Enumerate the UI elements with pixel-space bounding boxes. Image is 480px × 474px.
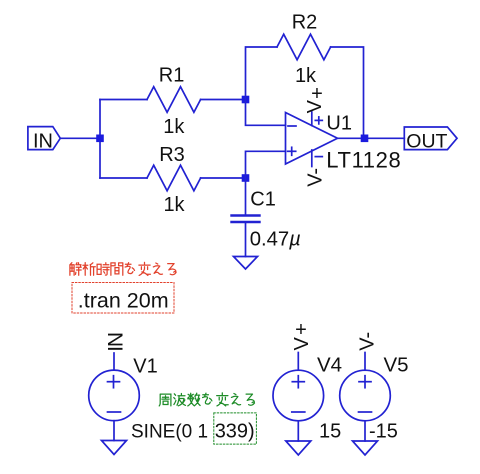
svg-text:OUT: OUT xyxy=(406,130,447,152)
wire C1 bottom lead xyxy=(245,223,247,257)
wire R2 left branch xyxy=(246,47,278,100)
wire V5 bottom lead xyxy=(364,421,366,441)
resistor R3 xyxy=(147,165,201,191)
svg-text:+: + xyxy=(311,83,323,105)
resistor R2 xyxy=(277,34,331,60)
svg-text:V4: V4 xyxy=(317,353,342,376)
wire IN to node xyxy=(60,137,100,139)
wire R3 left lead xyxy=(100,177,147,179)
svg-text:IN: IN xyxy=(33,130,53,152)
ground below C1 xyxy=(234,257,258,270)
wire op-amp output xyxy=(338,137,405,139)
wire V1 top lead xyxy=(113,353,115,370)
wire V4 bottom lead xyxy=(297,421,299,441)
svg-text:IN: IN xyxy=(105,333,128,352)
op-amp V- power stub xyxy=(311,150,313,167)
op-amp noninverting input mark xyxy=(288,147,296,155)
node junction output xyxy=(361,135,369,143)
wire V1 bottom lead xyxy=(113,421,115,441)
wire R1 left lead xyxy=(100,99,147,101)
voltage source V1 circle xyxy=(89,370,140,421)
svg-text:LT1128: LT1128 xyxy=(326,148,401,173)
svg-text:V-: V- xyxy=(304,168,326,187)
V1 minus mark xyxy=(108,411,121,413)
node junction noninverting input xyxy=(242,174,250,182)
svg-text:1k: 1k xyxy=(163,194,185,216)
svg-text:1k: 1k xyxy=(163,116,185,138)
voltage source V4 circle xyxy=(273,370,324,421)
op-amp V- pin minus mark xyxy=(315,156,322,158)
svg-text:339): 339) xyxy=(215,420,255,442)
svg-text:V1: V1 xyxy=(133,355,157,377)
ground below V5 xyxy=(353,441,378,455)
V4 minus mark xyxy=(292,411,305,413)
svg-text:R2: R2 xyxy=(292,12,318,34)
wire V4 top lead xyxy=(297,353,299,371)
comment red: kaiseki jikan wo kaeru xyxy=(70,262,176,275)
voltage source V5 circle xyxy=(340,370,391,421)
svg-text:R1: R1 xyxy=(159,65,185,87)
ground below V4 xyxy=(286,441,311,455)
op-amp V+ power stub xyxy=(311,112,313,126)
V5 plus mark xyxy=(359,376,371,388)
wire node to noninverting input xyxy=(246,151,286,178)
op-amp inverting input mark xyxy=(288,125,296,127)
resistor R1 xyxy=(147,87,201,113)
wire input vertical xyxy=(99,100,101,179)
wire V5 top lead xyxy=(364,353,366,371)
svg-text:.tran 20m: .tran 20m xyxy=(78,289,169,313)
wire C1 top lead xyxy=(245,178,247,214)
svg-text:R3: R3 xyxy=(159,144,185,166)
flag IN xyxy=(28,127,60,153)
svg-text:U1: U1 xyxy=(326,113,352,135)
svg-text:+: + xyxy=(295,319,307,341)
node junction inverting input xyxy=(242,96,250,104)
V1 plus mark xyxy=(108,376,120,388)
comment green: shuuhasuu wo kaeru xyxy=(159,393,254,406)
op-amp V+ pin plus mark xyxy=(315,117,322,124)
svg-text:V5: V5 xyxy=(384,353,409,376)
svg-text:0.47µ: 0.47µ xyxy=(250,229,301,251)
wire R2 right branch xyxy=(331,47,364,138)
node junction at IN xyxy=(96,135,104,143)
svg-text:15: 15 xyxy=(319,420,341,442)
flag OUT xyxy=(404,127,457,152)
op-amp U1 body xyxy=(286,113,338,165)
V4 plus mark xyxy=(292,376,304,388)
svg-text:-15: -15 xyxy=(369,420,398,442)
V5 minus mark xyxy=(359,411,372,413)
directive box .tran xyxy=(72,283,174,314)
wire R3 right lead xyxy=(201,177,246,179)
parameter box 339 xyxy=(214,413,257,444)
svg-text:C1: C1 xyxy=(250,189,276,211)
wire node to inverting input xyxy=(246,100,286,126)
capacitor C1 xyxy=(232,216,260,223)
wire R1 right lead xyxy=(201,99,246,101)
ground below V1 xyxy=(102,441,127,455)
svg-text:SINE(0 1: SINE(0 1 xyxy=(131,421,208,442)
svg-text:V-: V- xyxy=(357,332,379,351)
